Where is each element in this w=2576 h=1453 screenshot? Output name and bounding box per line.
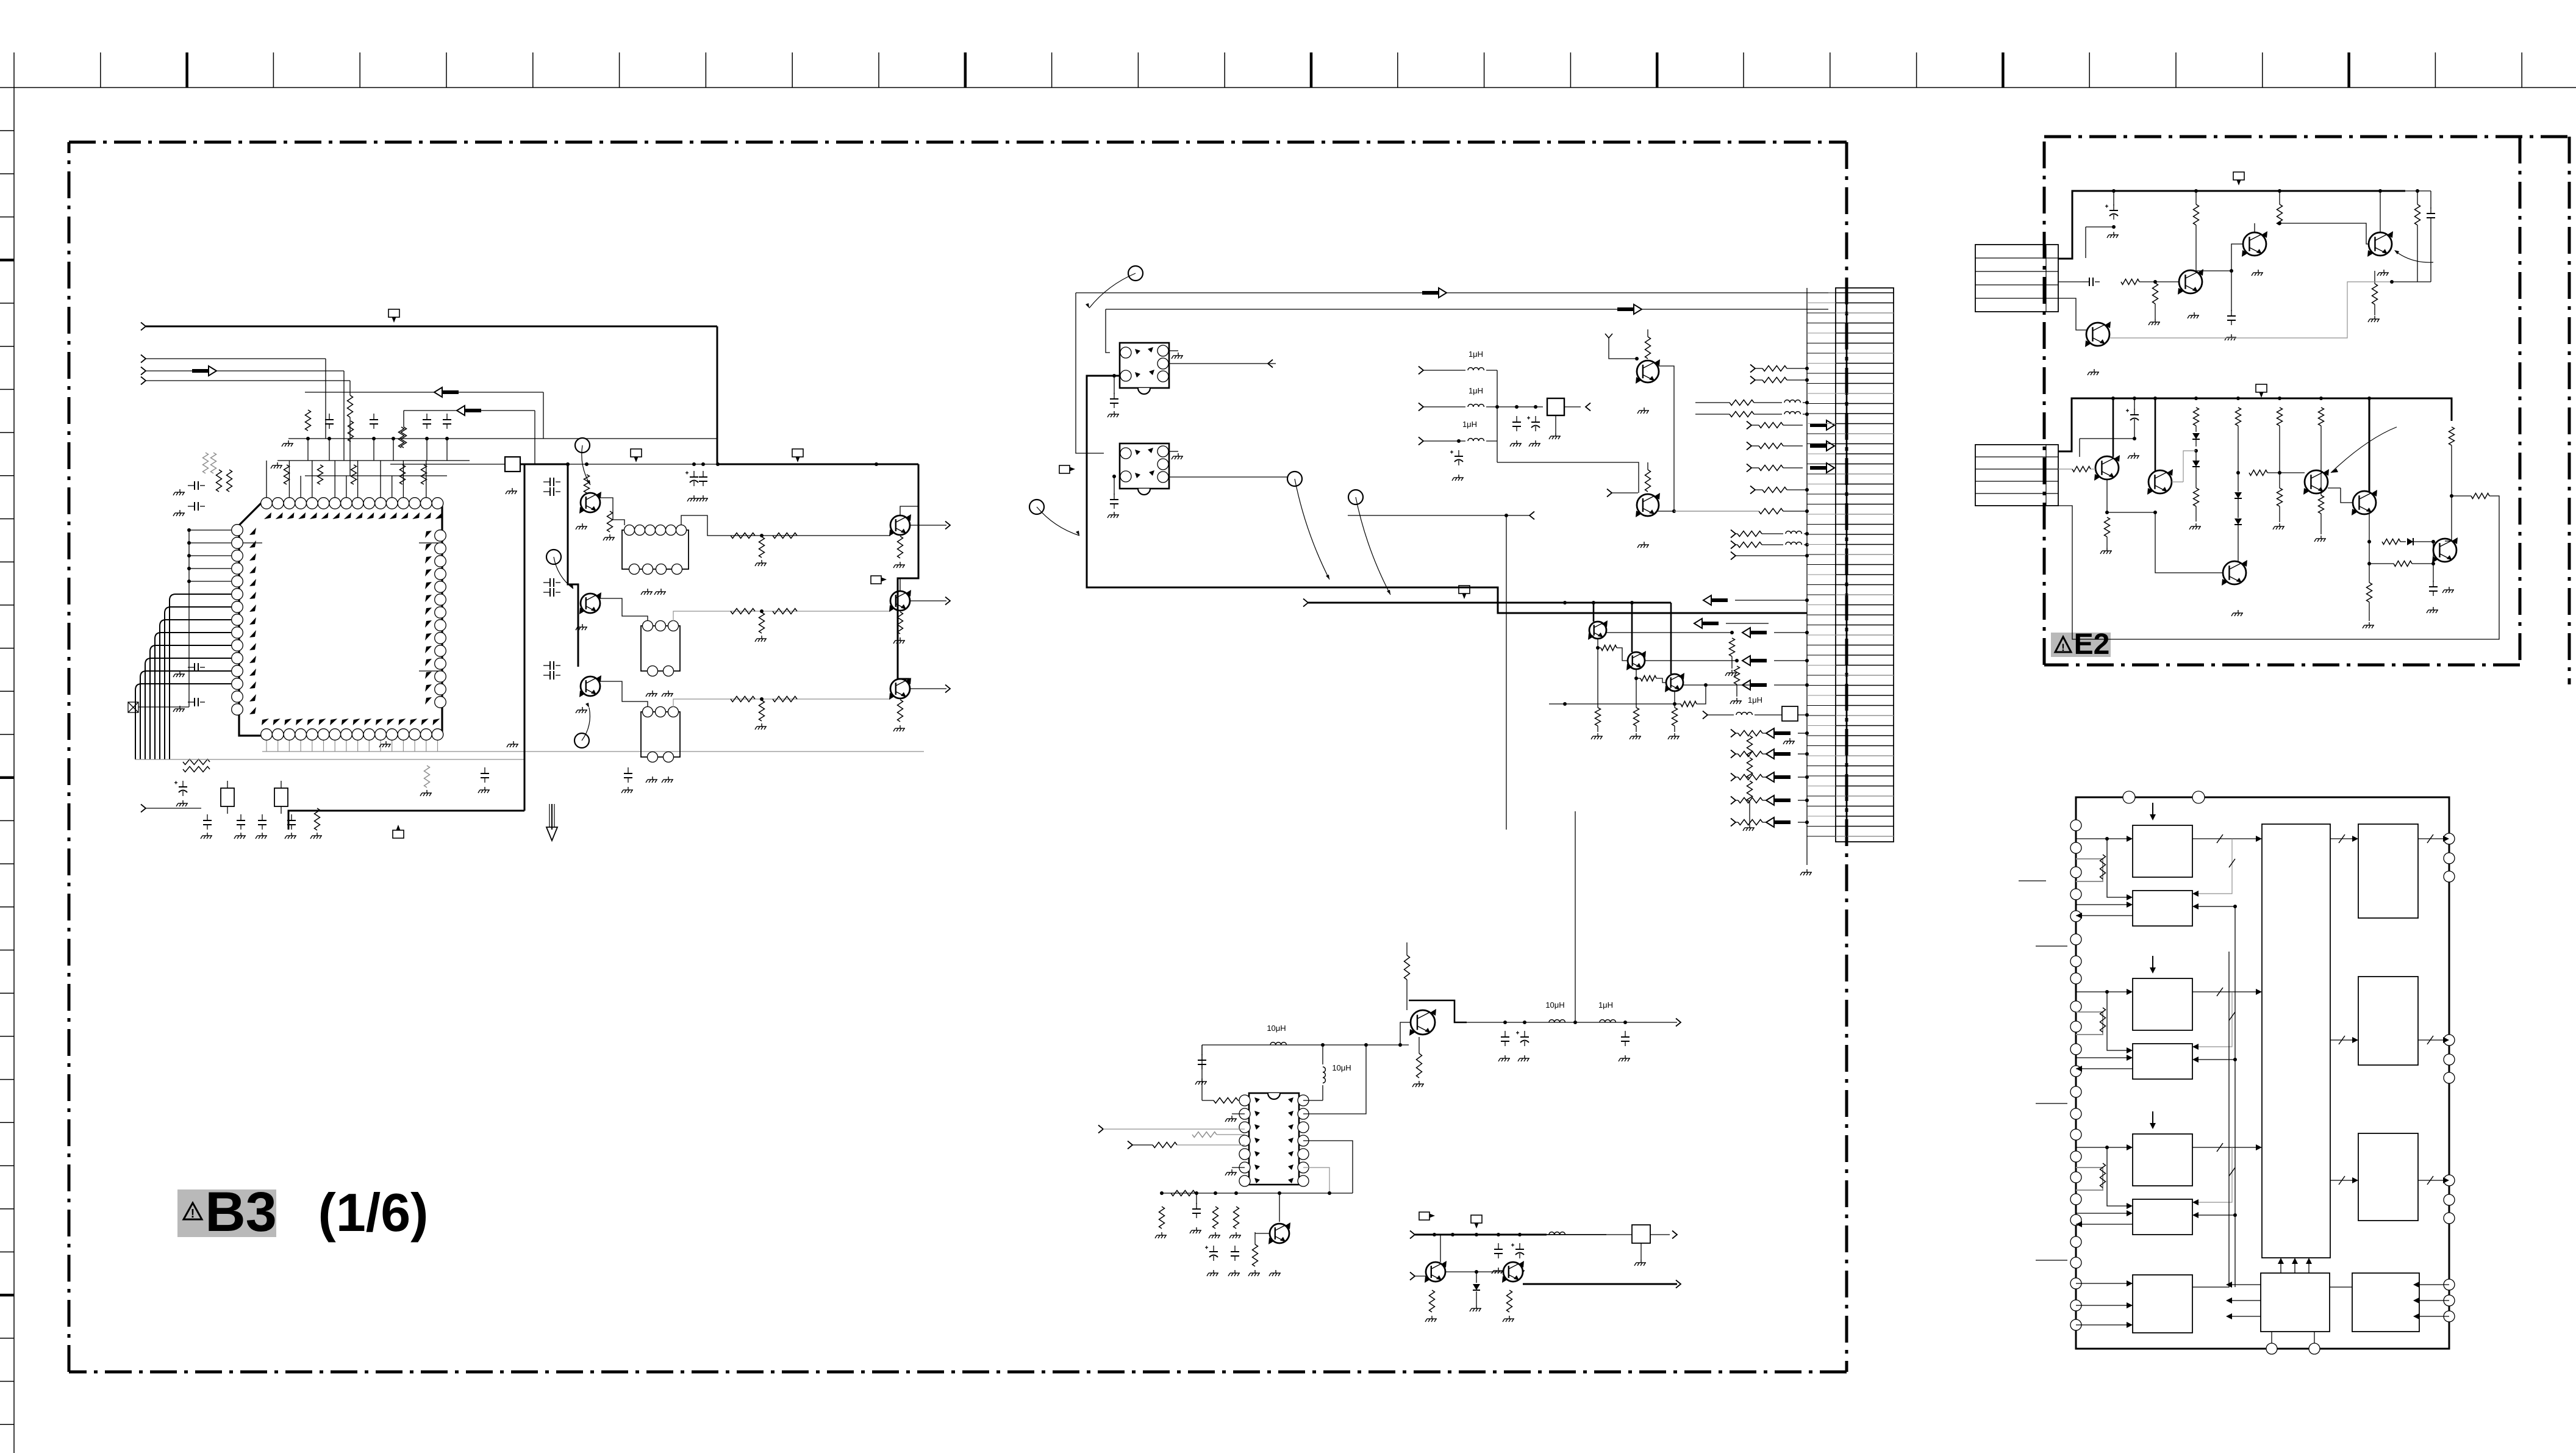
resistor R3207 (1636, 669, 1637, 678)
ceramic filter CF3102 (641, 626, 680, 671)
collector Q3202 (1658, 511, 1674, 512)
base resistors Q3104 (731, 533, 755, 539)
capacitor C3002 (329, 414, 330, 420)
loop wire bottom E2 (2058, 496, 2499, 639)
capacitor C3320 (1498, 1243, 1499, 1249)
wire Q3204 out (1645, 660, 1737, 661)
wire base QE5 (2058, 468, 2072, 470)
wire long 845 (1348, 515, 1529, 516)
capacitor C3311 pol (1524, 1031, 1525, 1037)
transistor Q3205 (1666, 674, 1683, 691)
ferrite bead FB3001 (505, 457, 520, 472)
tag bus (1059, 465, 1070, 473)
wire Q3303-Q3304 (1445, 1271, 1503, 1272)
junction dots top bus (306, 437, 310, 440)
wires bottom pins to bus (266, 741, 267, 752)
transistor Q3104 (890, 515, 910, 535)
transistor QE8 (2353, 491, 2376, 514)
ceramic filter CF3103 (641, 712, 680, 757)
tag bus 2024 (1471, 1215, 1482, 1223)
thick bus from IC3201 (1087, 376, 1807, 613)
transistor Q3101 (581, 493, 600, 512)
transistor Q3304 (1503, 1262, 1523, 1282)
grey bus under IC (262, 751, 924, 752)
frame right circles (2444, 833, 2455, 844)
diode DE2 (2192, 461, 2200, 467)
balloon ref i (1287, 472, 1302, 486)
connector left bus (1806, 288, 1808, 865)
filter net (1497, 406, 1543, 407)
signal row y604 (1750, 365, 1755, 373)
ruler top ticks (13, 52, 15, 88)
resistor RE6 (2415, 204, 2420, 225)
transistor Q3106 (890, 679, 910, 698)
transistor Q3202 (digital) (1637, 494, 1659, 516)
chevron bottom left (141, 805, 146, 813)
transistor Q3301 (1270, 1224, 1289, 1243)
svg-text:10μH: 10μH (1332, 1063, 1351, 1072)
balloon ref g (1128, 266, 1143, 281)
wire thick out bus (898, 464, 918, 679)
frame top circles (2123, 791, 2135, 803)
resistor R3101 (584, 475, 590, 493)
gnd IC3202 pin6 (1168, 451, 1178, 452)
IC IC3201 (DIP6) (1120, 343, 1169, 388)
transistor QE6 (2148, 470, 2172, 493)
gnd bottom pins (379, 741, 391, 747)
right block R2 (2358, 977, 2418, 1065)
resistor R3208 (1674, 691, 1675, 704)
box comp row1172 (1782, 706, 1798, 721)
block bottom-mid (2261, 1273, 2330, 1332)
resistor R3303 (1213, 1207, 1218, 1229)
bottom-mid circles (2271, 1348, 2272, 1349)
tag thick feed (1459, 586, 1470, 594)
crystal X3001 (221, 788, 234, 806)
input chevron P4 (141, 377, 146, 385)
dots rail2 (2111, 396, 2115, 400)
signal row y1236 (1731, 750, 1736, 758)
resistor RE16 (2367, 583, 2372, 602)
base resistors Q3106 (731, 697, 755, 702)
bottom-mid up arrows (2280, 1263, 2281, 1273)
thick drop QE8 (2369, 398, 2370, 492)
capacitor C3010 (188, 485, 195, 486)
capacitor C3310 (1504, 1031, 1506, 1037)
svg-text:1μH: 1μH (1462, 420, 1477, 429)
wire 10uH line (1202, 1044, 1409, 1046)
signal row y731 (1747, 442, 1751, 450)
junctions under DIP (1160, 1191, 1164, 1195)
thick bus 988 junctions (1563, 601, 1567, 605)
capacitor C3004 (426, 414, 428, 420)
label E2 (2051, 633, 2111, 657)
resistor RE2 (2277, 204, 2283, 225)
resistor above Q3202 (1645, 470, 1651, 492)
tick mark bd4 (2036, 1260, 2067, 1261)
transistor Q3105 (890, 591, 910, 611)
resistor RE14 (2382, 539, 2400, 545)
IC IC3001 bottom pins (261, 729, 273, 741)
tick mark bd1 (2019, 880, 2046, 881)
wire pin r4 (1303, 1141, 1353, 1193)
IC IC3001 right pins (435, 530, 446, 542)
block diagram frame (2076, 797, 2449, 1349)
right block R3 (2358, 1133, 2418, 1221)
gnd IC3301 b (1232, 1167, 1245, 1168)
resistors above IC (306, 410, 311, 431)
balloon ref h (1029, 500, 1044, 514)
gnd IC3301 a (1232, 1113, 1245, 1114)
capacitor C3020 (484, 767, 485, 773)
junction dots left bus (187, 528, 191, 532)
wires CF3101 (600, 498, 624, 525)
balloon ref d (575, 438, 590, 453)
wire pin r2 (1303, 1045, 1366, 1114)
block bottom-left (2133, 1275, 2192, 1333)
thick out 2105 (1523, 1283, 1677, 1285)
resistor R3320 (1429, 1290, 1435, 1312)
wires left pins bundle B (170, 594, 232, 759)
block diagram mid-right wires (2330, 838, 2352, 839)
tag rail 2 (792, 449, 803, 457)
dots bus 2024 (1433, 1233, 1436, 1236)
left arrow extra 2 (1701, 622, 1719, 625)
tag side 2024 (1419, 1212, 1429, 1220)
capacitor C3103 (543, 481, 550, 483)
balloon ref e (546, 550, 561, 564)
transistor QE3 (2369, 232, 2392, 256)
external X symbol (128, 702, 138, 712)
gnd CF3102 a (646, 691, 657, 697)
IC IC3001 bottom pin arrows (262, 719, 269, 725)
IC IC3001 top pin arrows (264, 512, 271, 519)
signal row y1274 (1731, 773, 1736, 781)
wire q3303 up (1440, 1235, 1441, 1262)
signal row y697 (1747, 422, 1751, 429)
rail junction dots (566, 462, 570, 466)
signal row y1348 (1731, 819, 1736, 827)
connector pin stubs (1807, 292, 1836, 293)
resistor R3010 (216, 470, 222, 492)
resistor RE15 (2369, 542, 2370, 564)
emitter resistor Q3106 (898, 700, 903, 722)
tag 9V (388, 309, 399, 317)
resistor RE12 (2319, 407, 2324, 426)
wire thick drop T3 (1670, 603, 1672, 674)
wire net V1 (325, 359, 326, 439)
E2 rail1 thick (2058, 191, 2405, 259)
wire pin r1 (1303, 1100, 1323, 1101)
bottom mid link (2330, 1286, 2352, 1288)
feedback vertical (2234, 906, 2236, 1287)
ruler top line (0, 87, 2576, 88)
tick mark bd3 (2036, 1103, 2067, 1104)
wire thick drop to rail (717, 326, 718, 464)
capacitor C3016 (240, 814, 241, 820)
wire QE1 base (2155, 281, 2179, 282)
row 1172 inductor (1703, 711, 1708, 719)
capacitor C3012 (188, 667, 195, 668)
row 667 (1419, 403, 1423, 411)
wire net V3 (349, 381, 351, 395)
transistor QE4 (2086, 323, 2109, 346)
box comp B1 (1547, 398, 1564, 415)
capacitor C3104 (543, 491, 550, 492)
signal row y767 (1747, 464, 1751, 472)
wire QE8 emitter (2369, 514, 2370, 542)
resistor RE8 (2194, 488, 2199, 506)
board B3 boundary (dash-dot box) (69, 141, 1847, 144)
emitter resistor Q3104 (898, 536, 903, 558)
diode DE4 (2234, 518, 2242, 525)
capacitor C3312 (1625, 1031, 1626, 1037)
capacitor C3015 (207, 814, 208, 820)
wire IC3201 out (1168, 363, 1276, 364)
curve into QE7 (2331, 427, 2397, 473)
resistor R3310 (1404, 955, 1410, 980)
capacitor C3019 polarized (182, 781, 184, 787)
IC IC3001 top pins (261, 498, 273, 509)
capacitor C3005 (446, 414, 448, 420)
crystal X3002 (274, 788, 288, 806)
transistor Q3203 (1589, 622, 1606, 639)
wire QE2 base (2196, 244, 2244, 271)
wire T9 base (2433, 542, 2434, 550)
resistor RE7 (2194, 407, 2199, 426)
E2 rail2 thick (2058, 398, 2452, 451)
frame left circles (2070, 820, 2081, 831)
resistor R3005 (318, 465, 323, 484)
inductor L3310 (1549, 1020, 1565, 1022)
wire thick drop T2 (1631, 603, 1633, 652)
dots out line (1503, 1021, 1507, 1024)
gnd CF3103 b (662, 777, 673, 783)
bottom vertical links (2271, 1332, 2272, 1343)
block arrow line A (1422, 291, 1439, 295)
wire Q3205 out (1683, 684, 1750, 686)
wire drop 2470 (1506, 515, 1507, 830)
block arrow on P3 (192, 369, 209, 373)
svg-text:1μH: 1μH (1469, 386, 1483, 395)
zener D3301 (1473, 1284, 1480, 1290)
coil vertical 10uH (1323, 1067, 1325, 1083)
resistor ladder divider 2 (1747, 758, 1753, 778)
base Q3201 (1609, 338, 1637, 359)
wire q2 collector (900, 578, 901, 591)
resistor R3015 (183, 767, 210, 772)
signal row y660 (1695, 402, 1730, 403)
emitter resistor Q3105 (898, 612, 903, 634)
transistor QE9 (2433, 539, 2456, 562)
tag E2 rail1 (2233, 172, 2244, 180)
hollow arrow down (551, 804, 553, 830)
inductor L3311 (1600, 1020, 1615, 1022)
wire thick feed (1308, 602, 1671, 604)
collector Q3201 (1658, 366, 1674, 511)
capacitor CE6 (2433, 581, 2434, 587)
capacitor C3301 (1196, 1203, 1197, 1209)
resistor RE17 (2471, 493, 2489, 499)
wire arrowline 643 (305, 392, 543, 393)
diode DE3 (2234, 492, 2242, 498)
resistor RE5 (2153, 283, 2158, 304)
dots rail1 (2112, 189, 2116, 193)
resistor RE12b (2320, 491, 2322, 495)
wire QE6 base (2172, 481, 2183, 483)
resistor R3006 (351, 465, 357, 484)
svg-text:10μH: 10μH (1545, 1000, 1564, 1010)
capacitor CE3 (2083, 281, 2089, 282)
block bd wire left (2192, 952, 2229, 1287)
wire thick bottom (288, 811, 524, 830)
output chevron Q3104 (910, 525, 946, 526)
resistor R3014 (183, 759, 210, 765)
wire IC3202 out (1168, 476, 1298, 478)
wires bus to pins row (307, 439, 309, 461)
wires left pins bundle A (189, 529, 232, 531)
emitter resistor Q3204 (1636, 678, 1637, 708)
wire pin r6 (1303, 1168, 1329, 1193)
input row1 (1098, 1125, 1103, 1133)
wire riser 2583 (1575, 811, 1576, 1022)
svg-text:!: ! (2061, 642, 2065, 653)
svg-text:1μH: 1μH (1598, 1000, 1613, 1010)
wire line A drop (1076, 293, 1104, 453)
resistor R3304 (1234, 1207, 1239, 1229)
emitter resistor Q3205 (1674, 704, 1675, 708)
transistor QE5 (2095, 456, 2119, 479)
signal row y679 (1695, 414, 1730, 415)
thick bus 2024 (1410, 1231, 1415, 1239)
wire thick riser (524, 464, 526, 811)
connector CN3001 body (1836, 288, 1894, 842)
wire P3 (146, 370, 344, 371)
wire line A (1076, 292, 1828, 293)
cap left of line (1201, 1054, 1203, 1060)
signal row y1312 (1731, 797, 1736, 805)
capacitor C3021 (628, 767, 629, 773)
signal row y1083 (1750, 659, 1767, 662)
capacitor C3013 (188, 701, 195, 703)
box comp B2 (1632, 1225, 1650, 1243)
connector CN3001 inner line (1846, 288, 1848, 842)
wire rail stub down1 (567, 464, 569, 482)
resistor ladder divider 3 (1747, 781, 1753, 802)
gnd Q3103 (576, 707, 587, 713)
resistor ladder divider 1 (1747, 736, 1753, 756)
capacitor C3106 (543, 592, 550, 593)
resistor R3012 (203, 453, 209, 473)
capacitor C3105 (543, 582, 550, 583)
base Q3202 (1607, 489, 1612, 497)
capacitor C3107 (543, 665, 550, 666)
resistor R3206 (1597, 639, 1598, 648)
wire QE3 base (2280, 223, 2369, 244)
capacitor C3017 (262, 814, 263, 820)
ruler left line (13, 88, 15, 1453)
wire line B drop (1106, 309, 1110, 353)
resistor R3008 (421, 465, 427, 484)
wires pins to bus (266, 461, 267, 497)
block bottom-right (2352, 1273, 2419, 1332)
svg-text:E2: E2 (2074, 628, 2110, 661)
wire conn row2 (2058, 281, 2083, 282)
wires CF3103 (600, 681, 648, 707)
resistor R3302 (1159, 1207, 1165, 1229)
balloon ref j (1348, 490, 1363, 504)
capacitor C3101 polarized (693, 471, 695, 477)
pins row bus (277, 460, 470, 461)
resistor R3007 (400, 465, 406, 484)
capacitor C3011 (188, 506, 195, 507)
emitter resistor Q3203 (1597, 648, 1598, 708)
input chevron P2 (141, 355, 146, 363)
svg-text:1μH: 1μH (1748, 695, 1762, 705)
transistor Q3303 (1426, 1262, 1445, 1282)
signal row y803 (1750, 486, 1755, 494)
tag E2 rail2 (2256, 384, 2267, 392)
signal row y1037 (1750, 631, 1767, 634)
svg-text:1μH: 1μH (1469, 350, 1483, 359)
thick collector loop (1409, 1000, 1467, 1022)
wire to Q3201 (1497, 462, 1639, 493)
diode DE1 (2192, 433, 2200, 439)
wire QE4 base (2058, 298, 2087, 330)
power rail thick (717, 464, 918, 465)
gnd of top bus (282, 440, 293, 447)
resistor R3305 (1253, 1244, 1258, 1266)
IC IC3001 flat-package body (239, 502, 442, 736)
signal row y838 (1674, 511, 1759, 512)
res input (1192, 1132, 1217, 1138)
resistor RE10 (2249, 470, 2267, 476)
signal row y1123 (1750, 683, 1767, 687)
balloon ref f (574, 733, 589, 748)
wire QE4 out (2109, 282, 2392, 338)
transistor Q3302 (1411, 1010, 1435, 1035)
transistor Q3204 (1628, 652, 1645, 669)
wire QE7 base (2267, 472, 2305, 473)
gnd CF3102 b (662, 691, 673, 697)
wire QE3 collector (2380, 191, 2381, 232)
signal row y1202 (1731, 730, 1736, 737)
transistor Q3103 (581, 676, 600, 696)
block row3 (2133, 1134, 2192, 1186)
input chevron P3 (141, 367, 146, 375)
mid tall block (2262, 824, 2330, 1258)
gnd IC3201 pin6 (1168, 350, 1178, 351)
wire line B (1106, 309, 1828, 310)
wire bottom 1154 (1549, 703, 1675, 705)
gnd Q3101 (576, 523, 587, 529)
input chevron P1 (141, 323, 146, 331)
signal row y893 (1731, 541, 1736, 549)
gnd CF3101 a (641, 589, 653, 595)
gnd ladder divider (1743, 825, 1755, 831)
capacitor CE1 pol (2113, 204, 2114, 210)
resistor R3004 (284, 465, 290, 484)
gnd Q3102 (576, 624, 587, 630)
capacitor C3302 pol (1213, 1246, 1214, 1252)
IC IC3202 (DIP6) (1120, 443, 1169, 489)
wire net V2 (343, 371, 345, 461)
gnd CF3101 b (654, 589, 666, 595)
row 607 (1419, 367, 1423, 375)
signal row y875 (1731, 530, 1736, 538)
capacitor CE5 pol (2134, 409, 2135, 415)
wire thick 9V line (146, 326, 717, 328)
